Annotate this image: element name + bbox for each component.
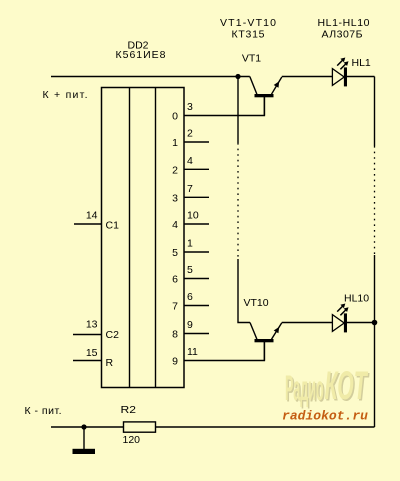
svg-text:VT1-VT10: VT1-VT10 bbox=[220, 17, 276, 29]
wire right rail solid top bbox=[374, 77, 376, 147]
watermark Radio KOT bbox=[285, 363, 370, 410]
svg-text:3: 3 bbox=[172, 192, 178, 204]
svg-text:К561ИЕ8: К561ИЕ8 bbox=[116, 49, 166, 61]
svg-text:R2: R2 bbox=[121, 404, 137, 416]
svg-text:120: 120 bbox=[123, 434, 141, 446]
svg-text:VT1: VT1 bbox=[242, 53, 261, 65]
svg-text:3: 3 bbox=[187, 101, 193, 113]
svg-text:10: 10 bbox=[187, 210, 199, 222]
pin 15 R input wire bbox=[73, 360, 102, 362]
LED HL10 bbox=[332, 304, 348, 333]
wire -V bottom rail left bbox=[51, 426, 124, 428]
wire collector bus dotted bbox=[237, 143, 239, 257]
svg-text:0: 0 bbox=[172, 111, 178, 123]
svg-text:HL1-HL10: HL1-HL10 bbox=[318, 17, 370, 29]
wire right rail dotted bbox=[374, 146, 376, 255]
svg-text:7: 7 bbox=[172, 301, 178, 313]
wire output 4 stub (pin 10) bbox=[184, 223, 209, 225]
svg-text:15: 15 bbox=[86, 347, 98, 359]
svg-text:2: 2 bbox=[172, 164, 178, 176]
svg-text:9: 9 bbox=[187, 319, 193, 331]
wire output 6 stub (pin 5) bbox=[184, 278, 209, 280]
wire VT10 emitter to HL10 bbox=[282, 322, 332, 324]
IC DD2 K561IE8 body bbox=[102, 88, 185, 388]
wire -V bottom rail right bbox=[156, 426, 375, 428]
svg-text:КОТ: КОТ bbox=[325, 363, 369, 408]
svg-text:4: 4 bbox=[172, 219, 178, 231]
svg-text:VT10: VT10 bbox=[244, 297, 269, 309]
svg-text:R: R bbox=[106, 357, 114, 369]
svg-text:HL1: HL1 bbox=[352, 57, 371, 69]
resistor R2 bbox=[124, 422, 156, 432]
svg-text:5: 5 bbox=[172, 247, 178, 259]
svg-text:13: 13 bbox=[86, 319, 98, 331]
svg-text:2: 2 bbox=[187, 128, 193, 140]
wire output 5 stub (pin 1) bbox=[184, 251, 209, 253]
wire HL1 cathode to right rail bbox=[347, 76, 375, 78]
svg-text:Радио: Радио bbox=[285, 368, 324, 408]
svg-text:КТ315: КТ315 bbox=[232, 29, 265, 41]
wire collector bus solid top bbox=[237, 77, 239, 144]
wire output 3 stub (pin 7) bbox=[184, 196, 209, 198]
pin 13 C2 input wire bbox=[73, 334, 102, 336]
wire output 8 stub (pin 9) bbox=[184, 333, 209, 335]
wire HL10 cathode to right rail bbox=[347, 322, 375, 324]
node junction dot ground bbox=[81, 424, 86, 429]
svg-text:C1: C1 bbox=[106, 220, 120, 232]
svg-text:6: 6 bbox=[187, 291, 193, 303]
svg-text:6: 6 bbox=[172, 274, 178, 286]
wire collector bus solid bottom to VT10 bbox=[238, 259, 250, 323]
node junction dot on right rail bbox=[372, 320, 378, 326]
svg-text:К + пит.: К + пит. bbox=[43, 89, 88, 101]
svg-text:8: 8 bbox=[172, 329, 178, 341]
svg-text:C2: C2 bbox=[106, 329, 120, 341]
svg-text:1: 1 bbox=[172, 137, 178, 149]
wire output 7 stub (pin 6) bbox=[184, 305, 209, 307]
node junction dot on +V rail bbox=[235, 74, 240, 79]
wire VT1 emitter to HL1 bbox=[282, 76, 332, 78]
svg-text:14: 14 bbox=[86, 210, 98, 222]
svg-text:11: 11 bbox=[187, 346, 198, 358]
transistor VT1 bbox=[250, 77, 282, 116]
svg-text:1: 1 bbox=[187, 238, 193, 250]
wire right rail solid bottom bbox=[374, 255, 376, 427]
svg-text:7: 7 bbox=[187, 183, 193, 195]
wire output 0 (pin 3) to VT1 base bbox=[184, 97, 264, 116]
svg-text:4: 4 bbox=[187, 155, 193, 167]
svg-text:К - пит.: К - пит. bbox=[25, 405, 62, 417]
svg-text:9: 9 bbox=[172, 356, 178, 368]
wire output 9 (pin 11) to VT10 base bbox=[184, 342, 264, 361]
svg-text:HL10: HL10 bbox=[344, 293, 369, 305]
wire output 2 stub (pin 4) bbox=[184, 168, 209, 170]
svg-text:5: 5 bbox=[187, 264, 193, 276]
wire +V top rail bbox=[51, 76, 250, 78]
LED HL1 bbox=[332, 58, 348, 87]
transistor VT10 bbox=[250, 323, 282, 361]
svg-text:АЛ307Б: АЛ307Б bbox=[322, 29, 363, 41]
ground symbol bbox=[73, 427, 96, 454]
wire output 1 stub (pin 2) bbox=[184, 141, 209, 143]
svg-text:radiokot.ru: radiokot.ru bbox=[282, 410, 369, 424]
pin 14 C1 input wire bbox=[74, 223, 102, 225]
